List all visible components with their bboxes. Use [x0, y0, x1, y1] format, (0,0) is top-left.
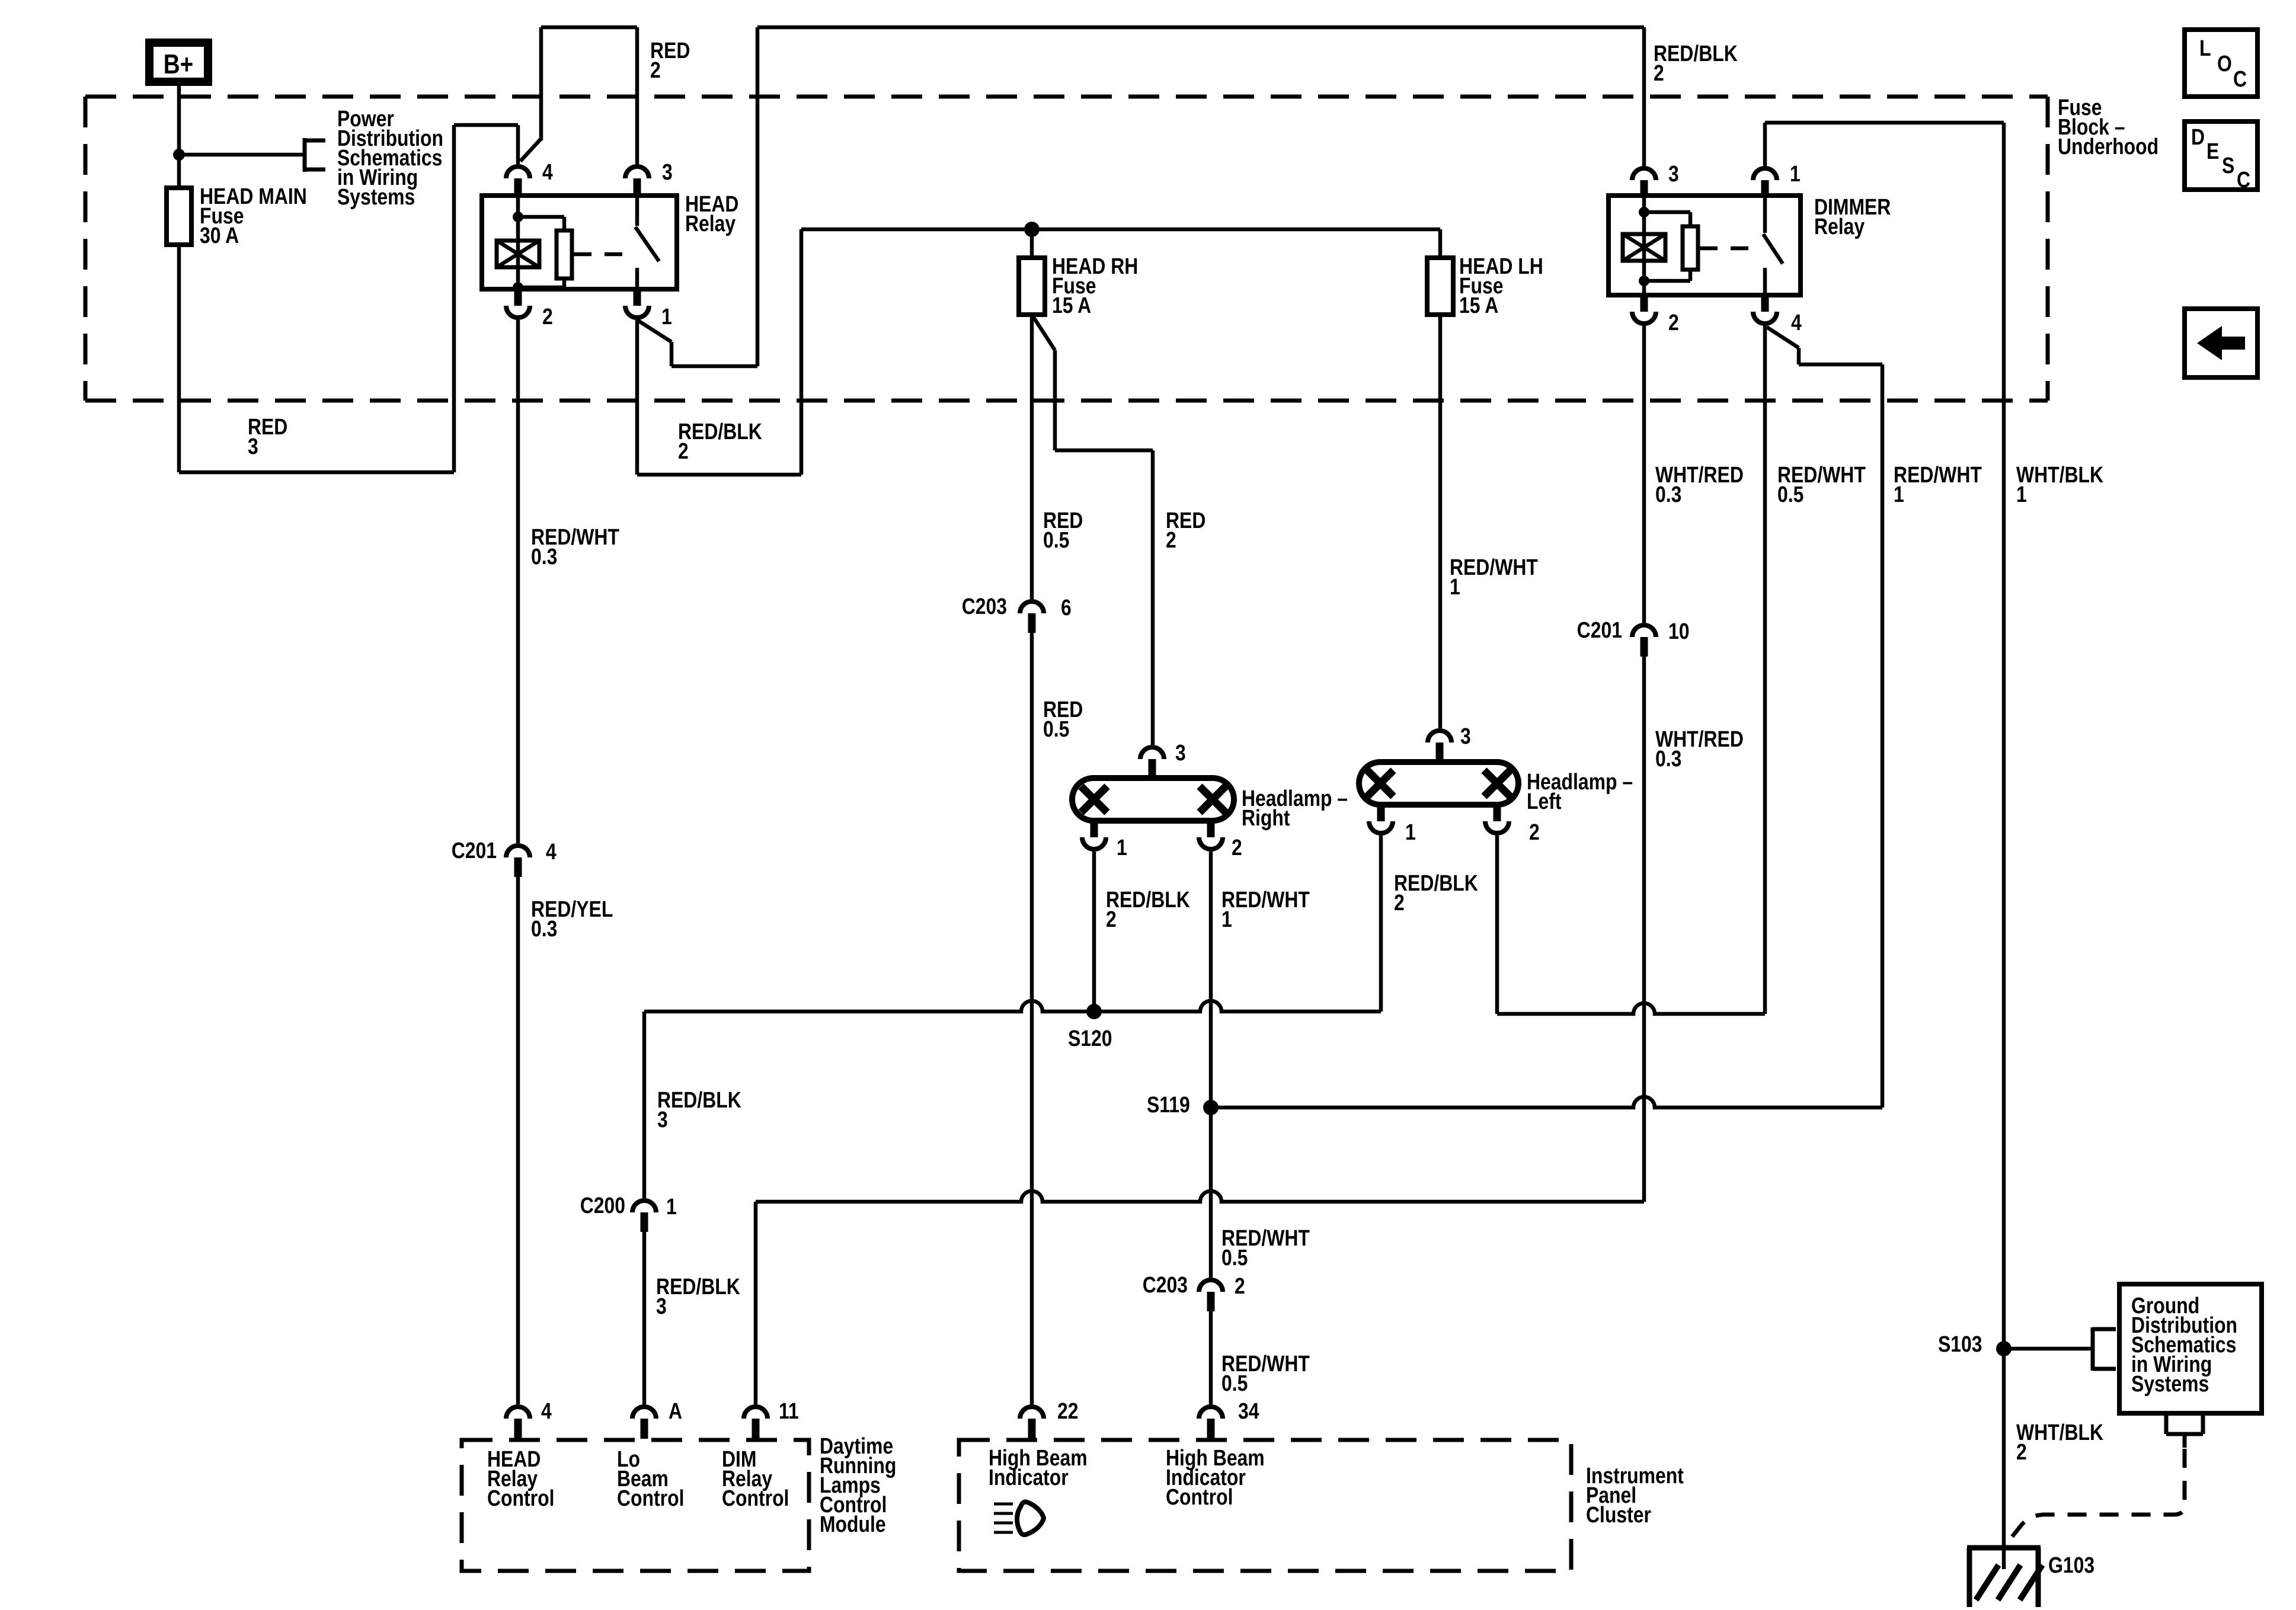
wire dimmer pin1 to WHT/BLK riser: [1765, 123, 2004, 1349]
svg-text:RED/BLK: RED/BLK: [678, 419, 762, 444]
svg-text:2: 2: [2016, 1439, 2027, 1464]
label RED/BLK 2 headlamp right: [1106, 887, 1190, 932]
svg-text:34: 34: [1238, 1398, 1259, 1423]
wire RED/BLK 2 head relay pin1 riser to dimmer pin3: [637, 27, 1644, 366]
wire RED/BLK 2 headlamp right pin1 to S120: [1092, 852, 1096, 1012]
svg-text:4: 4: [541, 1398, 552, 1423]
label RED 3: [248, 414, 287, 459]
svg-text:RED/BLK: RED/BLK: [1106, 887, 1190, 912]
svg-text:15 A: 15 A: [1459, 293, 1498, 318]
svg-text:4: 4: [546, 839, 557, 864]
svg-text:WHT/BLK: WHT/BLK: [2016, 1420, 2103, 1445]
svg-text:Left: Left: [1527, 789, 1562, 814]
svg-text:S: S: [2222, 153, 2234, 178]
node junction above HEAD RH fuse: [1024, 222, 1040, 237]
HEAD relay pin 3: [625, 159, 673, 196]
svg-text:S120: S120: [1068, 1026, 1112, 1051]
label Power Distribution Schematics in Wiring Systems: [337, 106, 443, 209]
HEAD relay pin 1: [625, 289, 672, 329]
label WHT/RED 0.3 lower: [1655, 726, 1744, 771]
label RED/BLK 3 lower: [656, 1274, 740, 1318]
node S103: [1996, 1341, 2012, 1356]
svg-text:RED/WHT: RED/WHT: [1450, 555, 1538, 580]
ground reference bracket: [2166, 1414, 2203, 1448]
wire feed to HEAD LH fuse: [1438, 229, 1443, 258]
svg-text:Control: Control: [617, 1486, 684, 1510]
svg-text:2: 2: [1529, 820, 1540, 844]
svg-text:3: 3: [1668, 161, 1679, 186]
svg-text:30 A: 30 A: [200, 223, 239, 248]
label RED/BLK 3 upper: [657, 1087, 741, 1132]
svg-text:L: L: [2199, 36, 2211, 60]
svg-text:C203: C203: [1143, 1272, 1188, 1297]
fuse HEAD MAIN 30 A: [167, 184, 307, 248]
svg-text:A: A: [669, 1398, 682, 1423]
svg-text:3: 3: [656, 1294, 667, 1318]
label S120: [1068, 1026, 1112, 1051]
wire RED/WHT 0.5 dimmer pin4 straight down: [1763, 326, 1767, 1014]
wire RED/BLK 3 S120 to C200-1: [642, 1012, 647, 1198]
wire feed to HEAD RH fuse: [1030, 229, 1034, 258]
svg-text:0.3: 0.3: [531, 916, 557, 941]
svg-text:RED/BLK: RED/BLK: [657, 1087, 741, 1112]
svg-text:Relay: Relay: [685, 211, 736, 236]
svg-text:0.3: 0.3: [1655, 482, 1681, 507]
wire branch to power distribution reference: [179, 138, 325, 172]
svg-text:Systems: Systems: [2131, 1371, 2209, 1396]
ground G103 symbol: [1967, 1548, 2042, 1607]
svg-text:Cluster: Cluster: [1586, 1502, 1651, 1527]
label WHT/BLK 1: [2016, 462, 2103, 507]
relay HEAD Relay box: [482, 196, 677, 289]
DIMMER relay resistor: [1644, 212, 1698, 281]
headlamp left high beam bulb: [1484, 770, 1510, 796]
svg-text:2: 2: [1235, 1273, 1245, 1298]
fuse HEAD RH 15 A: [1019, 254, 1138, 318]
svg-text:C200: C200: [580, 1193, 625, 1218]
svg-text:Module: Module: [820, 1512, 886, 1537]
wire RED/WHT 1 dimmer pin4 jog: [1767, 327, 1882, 1108]
DIMMER relay pin 3: [1632, 161, 1679, 197]
fuse HEAD LH 15 A: [1427, 254, 1543, 318]
wire RED/WHT 1 headlamp right pin2 through S119 to C203-2: [1209, 852, 1213, 1278]
svg-text:Indicator: Indicator: [989, 1465, 1069, 1490]
wire WHT/BLK 2 S103 to G103: [2002, 1356, 2006, 1569]
node B+ branch junction: [173, 149, 185, 161]
svg-text:C: C: [2237, 167, 2250, 192]
label Headlamp Left: [1527, 769, 1633, 814]
wire RED 2 loop pin4 to pin3: [520, 27, 637, 164]
svg-text:Underhood: Underhood: [2058, 134, 2159, 159]
svg-text:3: 3: [662, 159, 673, 184]
svg-text:1: 1: [2016, 482, 2027, 507]
HEAD relay actuator dashed link: [574, 252, 631, 257]
label DIM Relay Control: [722, 1446, 789, 1510]
DIMMER relay pin 4: [1753, 295, 1802, 335]
label High Beam Indicator: [989, 1445, 1088, 1490]
headlamp right high beam bulb: [1200, 786, 1226, 812]
wire RED/BLK 2 pin1 to fuses feed: [637, 229, 1440, 475]
wire RED 0.5 C203-6 to high beam indicator pin22: [1030, 633, 1034, 1404]
svg-text:1: 1: [666, 1194, 677, 1219]
svg-text:1: 1: [1450, 574, 1460, 599]
headlamp right pin 3: [1140, 740, 1186, 778]
label Lo Beam Control: [617, 1446, 684, 1510]
label Fuse Block - Underhood: [2058, 95, 2159, 159]
svg-text:0.5: 0.5: [1221, 1245, 1248, 1270]
connector C203 pin 2: [1143, 1272, 1245, 1311]
headlamp left pin 1: [1369, 805, 1416, 845]
wire RED/WHT 1 fuse to headlamp left pin3: [1438, 315, 1443, 728]
wire RED 3 from fuse to HEAD relay pin 4: [179, 125, 518, 472]
label G103: [2048, 1553, 2094, 1577]
wire RED/BLK 3 DIM relay control bus: [756, 1191, 1644, 1202]
wire S103 branch to ground reference: [2004, 1327, 2116, 1371]
svg-text:4: 4: [542, 159, 553, 184]
svg-text:6: 6: [1061, 595, 1072, 620]
wire WHT/RED 0.3 dimmer pin2 to C201-10: [1642, 326, 1646, 623]
svg-text:C: C: [2233, 66, 2247, 91]
ground distribution reference box: [2119, 1284, 2262, 1413]
svg-text:0.3: 0.3: [531, 544, 557, 569]
label WHT/RED 0.3 upper: [1655, 462, 1744, 507]
svg-text:C203: C203: [962, 594, 1007, 619]
label Daytime Running Lamps Control Module: [820, 1433, 896, 1537]
label RED 2: [650, 38, 690, 82]
HEAD relay pin 4: [506, 159, 553, 196]
connector C200 pin 1: [580, 1193, 677, 1232]
label HEAD Relay Control: [487, 1446, 554, 1510]
label RED/WHT 0.5 above pin 34: [1221, 1351, 1310, 1395]
svg-text:E: E: [2207, 139, 2219, 164]
svg-text:0.5: 0.5: [1777, 482, 1803, 507]
DIMMER relay coil branch: [1623, 196, 1665, 295]
headlamp left low beam bulb: [1367, 770, 1393, 796]
label RED/WHT 1: [1450, 555, 1538, 599]
svg-text:2: 2: [1232, 835, 1242, 860]
label Instrument Panel Cluster: [1586, 1463, 1684, 1527]
svg-text:Control: Control: [487, 1486, 554, 1510]
cluster pin 22: [1020, 1398, 1078, 1439]
svg-text:Control: Control: [1166, 1484, 1233, 1509]
svg-text:1: 1: [1221, 907, 1232, 932]
label HEAD Relay: [685, 191, 738, 236]
daytime running lamps control module dashed box: [462, 1440, 809, 1571]
headlamp right pin 2: [1199, 821, 1242, 860]
svg-text:2: 2: [1654, 60, 1664, 85]
svg-text:1: 1: [1405, 820, 1416, 844]
DESC reference box: [2185, 121, 2257, 193]
svg-text:11: 11: [779, 1398, 799, 1423]
DIMMER relay pin 2: [1632, 295, 1679, 335]
headlamp left pin 3: [1428, 724, 1471, 762]
svg-text:4: 4: [1791, 310, 1802, 335]
wire RED/WHT 0.5 headlamp left pin2 to dimmer pin4 line: [1497, 836, 1765, 1014]
svg-text:2: 2: [1394, 890, 1405, 915]
label RED/BLK 2 left: [678, 419, 762, 463]
label RED/WHT 0.3 left: [531, 524, 619, 569]
svg-text:3: 3: [1175, 740, 1186, 765]
label RED 2 jog: [1166, 508, 1205, 552]
svg-text:RED/BLK: RED/BLK: [1394, 870, 1478, 895]
label S119: [1147, 1092, 1190, 1117]
svg-text:Relay: Relay: [1814, 214, 1865, 239]
svg-text:3: 3: [657, 1107, 668, 1132]
HEAD relay switch: [635, 196, 659, 289]
headlamp right body: [1072, 778, 1234, 821]
svg-text:0.5: 0.5: [1043, 527, 1069, 552]
label RED/WHT 0.5: [1777, 462, 1866, 507]
label WHT/BLK 2: [2016, 1420, 2103, 1464]
svg-text:1: 1: [1117, 835, 1127, 860]
wire RED/WHT 0.5 C203-2 to pin 34: [1209, 1311, 1213, 1404]
svg-text:2: 2: [650, 57, 661, 82]
label RED 0.5 upper: [1043, 508, 1083, 552]
label RED/BLK 2 headlamp left: [1394, 870, 1478, 915]
svg-text:10: 10: [1668, 619, 1690, 644]
svg-text:RED/WHT: RED/WHT: [1894, 462, 1982, 487]
svg-text:Right: Right: [1242, 805, 1290, 830]
DRL module pin 11: [744, 1398, 799, 1439]
svg-text:RED/BLK: RED/BLK: [656, 1274, 740, 1299]
wire S119 to dimmer RED/WHT 1 riser: [1211, 1097, 1882, 1108]
back arrow box: [2185, 309, 2257, 377]
headlamp right pin 1: [1082, 821, 1127, 860]
wire B+ to HEAD MAIN fuse: [177, 86, 181, 188]
svg-text:1: 1: [1790, 161, 1801, 186]
node S120: [1086, 1004, 1102, 1019]
svg-text:1: 1: [1894, 482, 1904, 507]
relay DIMMER Relay box: [1609, 196, 1801, 295]
svg-text:2: 2: [542, 304, 553, 329]
label S103: [1938, 1331, 1982, 1356]
instrument panel cluster dashed box: [959, 1440, 1571, 1571]
svg-text:S119: S119: [1147, 1092, 1190, 1117]
svg-text:O: O: [2217, 51, 2232, 76]
svg-text:1: 1: [661, 304, 672, 329]
label DIMMER Relay: [1814, 194, 1891, 239]
connector C203 pin 6: [962, 594, 1072, 633]
connector C201 pin 10: [1577, 617, 1690, 657]
svg-text:C201: C201: [1577, 617, 1622, 642]
wire WHT/RED 0.3 C201-10 down to DIM control line: [1642, 657, 1646, 1202]
svg-text:2: 2: [678, 438, 689, 463]
wire RED/BLK 2 headlamp left pin1 to S120 line: [1379, 836, 1383, 1012]
wire S120 bus: [644, 1001, 1381, 1012]
B+ terminal: [149, 43, 208, 82]
svg-text:15 A: 15 A: [1052, 293, 1091, 318]
high beam indicator icon: [994, 1502, 1044, 1535]
svg-text:22: 22: [1057, 1398, 1079, 1423]
svg-text:B+: B+: [164, 49, 193, 79]
svg-text:WHT/BLK: WHT/BLK: [2016, 462, 2103, 487]
label High Beam Indicator Control: [1166, 1445, 1265, 1509]
headlamp left body: [1359, 762, 1518, 805]
DRL module pin 4: [506, 1398, 552, 1439]
svg-text:S103: S103: [1938, 1331, 1982, 1356]
svg-text:RED/BLK: RED/BLK: [1654, 41, 1738, 66]
wire RED 0.5 fuse to C203-6: [1030, 315, 1034, 599]
svg-text:0.5: 0.5: [1043, 716, 1069, 741]
LOC reference box: [2185, 30, 2257, 97]
HEAD relay pin 2: [506, 289, 553, 329]
dashed link to G103: [2008, 1449, 2185, 1542]
svg-text:Control: Control: [722, 1486, 789, 1510]
label RED 0.5 lower: [1043, 697, 1083, 741]
svg-text:Systems: Systems: [337, 184, 415, 209]
svg-text:2: 2: [1166, 527, 1176, 552]
svg-text:3: 3: [248, 434, 258, 459]
DIMMER relay actuator dashed link: [1700, 247, 1757, 251]
cluster pin 34: [1199, 1398, 1259, 1439]
label Headlamp Right: [1242, 786, 1348, 830]
svg-text:0.3: 0.3: [1655, 746, 1681, 771]
wire RED/YEL 0.3 C201-4 to HEAD relay control pin 4: [516, 877, 520, 1404]
label RED/BLK 2 right: [1654, 41, 1738, 85]
label RED/WHT 1 right: [1894, 462, 1982, 507]
svg-text:3: 3: [1460, 724, 1471, 748]
svg-text:2: 2: [1106, 907, 1117, 932]
HEAD relay resistor: [518, 217, 572, 287]
label RED/WHT 0.5 above C203-2: [1221, 1225, 1310, 1270]
wire RED 2 jog to headlamp right pin3: [1032, 315, 1153, 745]
fuse block underhood dashed outline: [85, 97, 2048, 401]
wire RED/BLK 3 C200-1 to Lo Beam Control pin A: [642, 1232, 647, 1404]
wire RED/WHT 0.3 head relay pin2 to C201-4: [516, 320, 520, 843]
svg-text:C201: C201: [452, 838, 497, 863]
headlamp right low beam bulb: [1081, 786, 1107, 812]
DIMMER relay pin 1: [1753, 161, 1801, 197]
headlamp left pin 2: [1485, 805, 1540, 845]
HEAD relay coil branch: [497, 196, 539, 293]
connector C201 pin 4: [452, 838, 557, 877]
node S119: [1203, 1100, 1219, 1115]
svg-text:0.5: 0.5: [1221, 1371, 1248, 1395]
svg-text:RED/WHT: RED/WHT: [1221, 887, 1310, 912]
label RED/WHT 1 headlamp right: [1221, 887, 1310, 932]
wire to DIM relay control pin 11: [754, 1202, 758, 1404]
label RED/YEL 0.3: [531, 897, 613, 941]
svg-text:G103: G103: [2048, 1553, 2094, 1577]
svg-text:D: D: [2191, 124, 2205, 149]
svg-text:2: 2: [1668, 310, 1679, 335]
DIMMER relay switch: [1763, 196, 1783, 295]
DRL module pin A: [632, 1398, 682, 1439]
